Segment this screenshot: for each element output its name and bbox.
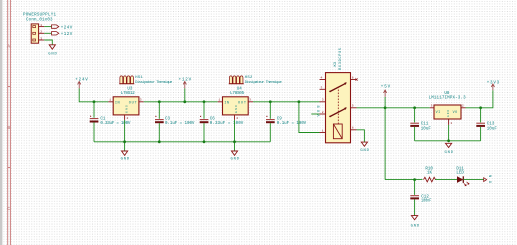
node junction bottom U4	[233, 140, 236, 143]
wire U3 pin2 to bottom rail	[124, 120, 126, 151]
svg-text:0.1uF = 100V: 0.1uF = 100V	[165, 122, 195, 126]
relay pin 4	[320, 77, 326, 80]
regulator U4 pin 3	[248, 99, 253, 102]
svg-text:C11: C11	[421, 123, 429, 127]
svg-text:1: 1	[109, 99, 111, 102]
bottom rail U8	[415, 140, 481, 142]
connector pin 1	[39, 24, 45, 27]
svg-text:3: 3	[40, 37, 42, 40]
svg-text:C6: C6	[210, 118, 216, 122]
svg-text:VI: VI	[436, 111, 441, 115]
regulator U3 pin 1	[108, 99, 113, 102]
node junction bottom C3	[158, 140, 161, 143]
regulator U8 pin 1	[449, 119, 453, 125]
heatsink HS2	[229, 76, 244, 84]
power flag +24V	[75, 79, 88, 89]
svg-text:GND: GND	[360, 149, 369, 153]
wire branch down to relay pin1	[299, 102, 320, 133]
svg-text:0.33uF = 100V: 0.33uF = 100V	[210, 122, 244, 126]
svg-text:0.1uF = 100V: 0.1uF = 100V	[277, 122, 307, 126]
wire relay pin8 to GND	[357, 130, 365, 142]
svg-text:3: 3	[140, 99, 142, 102]
svg-text:B: B	[7, 125, 10, 131]
relay actuator dashed line	[337, 87, 339, 125]
relay pin 3	[320, 99, 326, 102]
svg-text:1: 1	[40, 24, 42, 27]
wire D11 to label	[463, 179, 483, 181]
wire U4 pin2 to bottom rail	[234, 120, 236, 151]
node junction C11 tap	[413, 106, 416, 109]
svg-text:RX3DCP05: RX3DCP05	[339, 48, 343, 70]
svg-text:GND: GND	[121, 158, 130, 162]
svg-text:GND: GND	[411, 224, 420, 228]
wire pin3 down to GND	[44, 40, 52, 45]
svg-text:Dissipateur Thermique: Dissipateur Thermique	[245, 80, 282, 85]
regulator U8 pin 2	[461, 105, 466, 108]
relay K3 body	[326, 73, 351, 143]
svg-text:LED: LED	[456, 171, 464, 175]
wire rail U4 out to relay	[253, 101, 320, 103]
ground GND under U8	[445, 143, 454, 155]
svg-text:C13: C13	[487, 123, 495, 127]
relay pin 2 with net stub	[311, 111, 325, 114]
svg-text:OUT: OUT	[238, 101, 247, 105]
power flag +12V	[179, 79, 192, 102]
relay pin 5	[351, 105, 357, 108]
svg-text:GND: GND	[48, 52, 57, 56]
wire rail U3 out to U4 in	[144, 101, 218, 103]
relay coil	[333, 124, 342, 139]
svg-text:IN: IN	[224, 101, 229, 105]
wire U8 pin1 to bottom rail	[448, 125, 450, 141]
capacitor C12	[410, 180, 431, 216]
svg-text:K3: K3	[334, 61, 338, 66]
svg-text:+5V: +5V	[381, 86, 391, 90]
node junction U8 gnd	[447, 139, 450, 142]
svg-text:HS1: HS1	[135, 76, 143, 80]
svg-text:GND: GND	[445, 151, 454, 155]
svg-text:100nF: 100nF	[421, 200, 431, 204]
relay pin 8	[351, 127, 357, 130]
svg-text:3: 3	[249, 99, 251, 102]
connector pin 3	[39, 37, 45, 40]
sheet left margin strip	[0, 0, 2, 245]
wire LED row horizontal	[385, 179, 422, 181]
wire U8 out to +3V3	[466, 90, 493, 108]
ground GND under C12	[411, 216, 420, 229]
node junction C13 tap	[479, 106, 482, 109]
node junction C12 tap	[413, 178, 416, 181]
svg-text:U3: U3	[127, 87, 133, 91]
global label arrow +12V	[52, 32, 73, 37]
svg-text:A: A	[7, 44, 10, 50]
svg-text:GND: GND	[235, 105, 238, 113]
capacitor C13	[476, 108, 497, 141]
ground GND under U4	[231, 151, 240, 162]
svg-text:+24V: +24V	[75, 79, 88, 83]
svg-text:L78S12: L78S12	[121, 92, 135, 96]
svg-text:0.33uF = 100V: 0.33uF = 100V	[100, 122, 130, 126]
svg-text:3: 3	[431, 105, 433, 108]
svg-text:+24V: +24V	[61, 26, 73, 30]
node junction +5V tap	[384, 106, 387, 109]
global label arrow +24V	[52, 25, 73, 30]
svg-text:LM1117IMPX-3.3: LM1117IMPX-3.3	[429, 97, 466, 101]
svg-text:U8: U8	[444, 92, 450, 96]
svg-text:5: 5	[352, 105, 354, 108]
svg-text:1: 1	[219, 99, 221, 102]
svg-text:C1: C1	[100, 118, 106, 122]
hierarchical label ON	[484, 175, 494, 183]
relay contact arm A	[329, 82, 346, 92]
relay pin 7	[320, 86, 326, 89]
svg-text:C: C	[7, 206, 10, 212]
relay pin 1	[320, 129, 326, 132]
node junction relay coil branch	[298, 100, 301, 103]
power flag +3V3	[487, 82, 500, 91]
svg-text:HS2: HS2	[245, 76, 253, 80]
regulator U4 L78S05 body	[223, 97, 249, 115]
relay contact arm B	[329, 107, 346, 117]
node junction C9 tap	[269, 100, 272, 103]
svg-text:V08: V08	[317, 106, 321, 117]
svg-text:C3: C3	[165, 118, 171, 122]
svg-text:2: 2	[322, 111, 324, 114]
regulator U8 pin 3	[430, 105, 434, 108]
regulator U8 LM1117 body	[434, 105, 461, 119]
svg-text:1: 1	[322, 129, 324, 132]
wire R10 to D11	[435, 179, 457, 181]
resistor R10	[424, 168, 436, 182]
node junction C6 tap	[203, 100, 206, 103]
svg-text:L78S05: L78S05	[230, 92, 244, 96]
svg-text:1: 1	[450, 122, 452, 125]
capacitor C1	[90, 102, 131, 142]
regulator U4 pin 1	[218, 99, 223, 102]
wire pin1 to +24V label	[44, 26, 51, 28]
power flag +5V	[381, 86, 391, 108]
connector POWERSUPPLY1 body	[31, 24, 38, 43]
bottom rail stage1-2	[94, 141, 270, 143]
svg-text:6: 6	[352, 77, 354, 80]
svg-text:2: 2	[236, 117, 238, 120]
capacitor C11	[410, 108, 431, 141]
node junction bottom C6	[203, 140, 206, 143]
capacitor C9	[266, 102, 307, 142]
svg-text:2: 2	[127, 117, 129, 120]
svg-text:Dissipateur Thermique: Dissipateur Thermique	[135, 80, 172, 85]
svg-text:GND: GND	[126, 105, 129, 113]
diode D11 LED	[456, 168, 469, 186]
ground GND under connector	[48, 45, 57, 57]
node junction C1 tap	[93, 100, 96, 103]
ground GND under U3	[121, 151, 130, 162]
svg-text:C9: C9	[277, 118, 283, 122]
svg-text:8: 8	[352, 127, 354, 130]
connector pin 2	[39, 31, 45, 34]
svg-text:4: 4	[321, 77, 323, 80]
node junction C3 tap	[158, 100, 161, 103]
regulator U3 pin 2	[125, 115, 129, 120]
regulator U4 pin 2	[235, 115, 239, 120]
svg-text:GND: GND	[231, 158, 240, 162]
svg-text:VO: VO	[453, 111, 458, 115]
capacitor C6	[200, 102, 244, 142]
svg-text:IN: IN	[115, 101, 120, 105]
regulator U3 pin 3	[139, 99, 144, 102]
node junction bottom U3	[123, 140, 126, 143]
svg-text:Conn_01x03: Conn_01x03	[26, 19, 53, 23]
sheet border frame	[8, 0, 11, 245]
wire relay pin5 to U8	[357, 107, 430, 109]
heatsink HS1	[119, 76, 134, 84]
relay pin 6 unconnected	[351, 77, 358, 81]
wire pin2 to +12V label	[44, 32, 51, 34]
svg-text:3: 3	[322, 99, 324, 102]
ground GND relay	[360, 142, 369, 153]
node junction +12V tap	[183, 100, 186, 103]
svg-text:GND: GND	[447, 109, 450, 116]
svg-text:U4: U4	[237, 87, 243, 91]
svg-text:10uF: 10uF	[487, 127, 498, 131]
svg-text:2: 2	[462, 105, 464, 108]
regulator U3 L78S12 body	[113, 97, 139, 115]
svg-text:OUT: OUT	[129, 101, 138, 105]
wire +24V down to rail	[79, 88, 108, 101]
svg-text:+12V: +12V	[61, 33, 73, 37]
wire +5V junction down to LED row	[384, 108, 386, 180]
svg-text:7: 7	[321, 86, 323, 89]
capacitor C3	[155, 102, 195, 142]
svg-text:1K: 1K	[427, 171, 433, 175]
svg-text:2: 2	[40, 31, 42, 34]
svg-text:10uF: 10uF	[421, 127, 432, 131]
svg-text:POWERSUPPLY1: POWERSUPPLY1	[23, 14, 56, 18]
